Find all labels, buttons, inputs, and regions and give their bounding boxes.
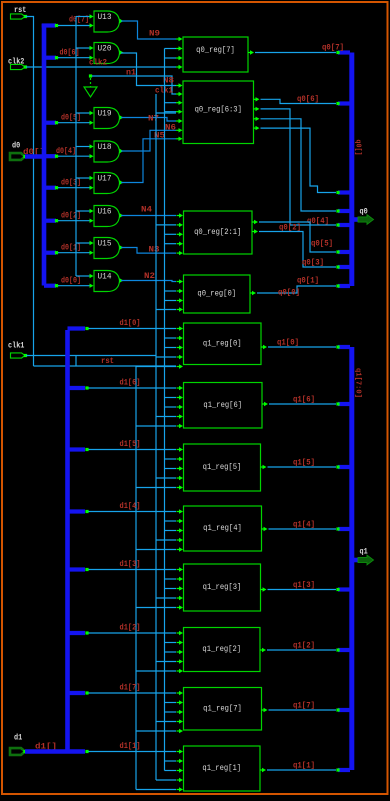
flip-flop block q1_reg[5] xyxy=(177,444,261,491)
wire clk2 net horizontal to q0_reg[7] xyxy=(26,66,176,68)
svg-text:q0[6]: q0[6] xyxy=(297,95,319,104)
svg-text:N6: N6 xyxy=(165,124,176,133)
wire net q1[7] from q1_reg[7] to bus q1 xyxy=(262,702,351,713)
wire net q1[3] from q1_reg[3] to bus q1 xyxy=(261,581,351,592)
wire net N3 from U15 to q0_reg[2:1] xyxy=(121,245,176,254)
svg-text:q0: q0 xyxy=(360,208,368,217)
svg-text:U19: U19 xyxy=(98,111,112,119)
wire clk1 net horizontal xyxy=(26,356,156,367)
svg-text:d0: d0 xyxy=(12,141,20,151)
input bus port d0 xyxy=(10,141,45,160)
wire vertical rail C x136 rst distribution xyxy=(136,366,176,790)
bus stub and net d1[0] to q1_reg[0] xyxy=(68,319,177,330)
svg-text:U16: U16 xyxy=(98,209,112,217)
svg-text:N7: N7 xyxy=(148,115,159,124)
net n1 wire from dangling pin to q0_reg[6:3] xyxy=(92,69,176,95)
wire net N4 from U16 to q0_reg[2:1] xyxy=(121,206,176,216)
svg-text:q1[5]: q1[5] xyxy=(293,459,315,468)
flip-flop block q1_reg[4] xyxy=(177,506,262,552)
svg-text:d1[3]: d1[3] xyxy=(120,560,141,569)
bus stub and net d1[3] to q1_reg[3] xyxy=(68,560,177,571)
svg-text:q0_reg[0]: q0_reg[0] xyxy=(197,289,236,299)
bus stub and net d0[3] to gate U17 xyxy=(44,179,94,190)
svg-text:q1[4]: q1[4] xyxy=(293,521,315,530)
svg-text:q1_reg[5]: q1_reg[5] xyxy=(203,462,242,472)
unconnected net symbol with hanger triangle xyxy=(84,74,97,97)
wire from q0_reg[6:3] pin to stub y211 xyxy=(261,119,337,211)
svg-text:U14: U14 xyxy=(98,274,112,282)
svg-text:d1[7]: d1[7] xyxy=(120,684,141,693)
svg-text:U15: U15 xyxy=(98,241,112,249)
flip-flop block q1_reg[6] xyxy=(177,383,263,429)
svg-text:U20: U20 xyxy=(98,46,112,54)
wire vertical rail A x164 feeding register pins xyxy=(165,49,177,771)
wire net q0[3] from q0_reg[2:1] xyxy=(259,232,336,268)
bus q0 vertical trunk xyxy=(352,53,362,287)
svg-text:d1: d1 xyxy=(14,733,22,743)
wire net N7 from U19 to q0_reg[6:3] xyxy=(121,115,176,124)
bus q0 stub at y=225 xyxy=(336,223,350,226)
bus q0 stub at y=252 xyxy=(336,250,350,253)
bus q0 stub at y=103.5 xyxy=(336,102,350,105)
svg-text:d1[0]: d1[0] xyxy=(120,319,141,328)
bus stub and net d0[6] to gate U20 xyxy=(44,49,94,60)
svg-text:N3: N3 xyxy=(149,245,160,254)
flip-flop block q0_reg[2:1] xyxy=(177,211,259,255)
wire vertical rail B x156 clk1 distribution xyxy=(156,94,176,780)
wire from q0_reg[6:3] pin to stub y225 xyxy=(261,109,337,233)
svg-text:q1_reg[3]: q1_reg[3] xyxy=(203,582,242,592)
bus stub and net d1[1] to q1_reg[1] xyxy=(85,742,176,753)
wire net q1[4] from q1_reg[4] to bus q1 xyxy=(262,521,351,532)
and-gate U16 xyxy=(94,206,124,227)
output port q1 with bus stub xyxy=(353,548,374,565)
and-gate U20 xyxy=(94,43,124,64)
bus stub and net d1[5] to q1_reg[5] xyxy=(68,440,177,451)
svg-text:clk2: clk2 xyxy=(8,57,24,67)
and-gate U18 xyxy=(94,141,124,162)
flip-flop block q1_reg[0] xyxy=(177,323,262,369)
flip-flop block q1_reg[2] xyxy=(177,628,261,674)
and-gate U19 xyxy=(94,108,124,129)
flip-flop block q0_reg[7] xyxy=(176,37,254,72)
svg-text:d1[5]: d1[5] xyxy=(120,440,141,449)
svg-text:d1[6]: d1[6] xyxy=(120,379,141,388)
svg-text:rst: rst xyxy=(101,357,114,366)
bus stub and net d0[1] to gate U15 xyxy=(44,244,94,255)
svg-text:U13: U13 xyxy=(98,14,112,22)
wire net q1[6] from q1_reg[6] to bus q1 xyxy=(262,396,350,407)
input port clk2 xyxy=(8,57,27,70)
svg-text:q1[7:0]: q1[7:0] xyxy=(354,368,362,398)
wire net q1[2] from q1_reg[2] to bus q1 xyxy=(260,642,350,653)
wire net q1[0] from q1_reg[0] to bus q1 xyxy=(261,339,350,350)
svg-text:N2: N2 xyxy=(144,272,155,281)
svg-text:n1: n1 xyxy=(126,69,136,78)
svg-text:N4: N4 xyxy=(141,206,152,215)
flip-flop block q1_reg[1] xyxy=(177,746,261,792)
bus q0 stub at y=52.5 xyxy=(336,51,350,54)
bus d0 vertical trunk xyxy=(42,24,47,286)
wire net N6 from U18 to q0_reg[6:3] xyxy=(121,124,176,152)
svg-text:d1[2]: d1[2] xyxy=(120,624,141,633)
svg-text:q0[7]: q0[7] xyxy=(322,44,344,53)
svg-text:d1[4]: d1[4] xyxy=(120,502,141,511)
bus q0 stub at y=211 xyxy=(336,209,350,212)
svg-text:q1[7]: q1[7] xyxy=(293,702,315,711)
wire net q0[6] xyxy=(261,95,337,104)
svg-text:d0[0]: d0[0] xyxy=(61,277,81,286)
and-gate U15 xyxy=(94,238,124,259)
svg-text:q1_reg[7]: q1_reg[7] xyxy=(203,703,242,713)
svg-text:q0[3]: q0[3] xyxy=(302,259,324,268)
bus d1 horizontal from port xyxy=(25,749,85,754)
bus stub and net d0[0] to gate U14 xyxy=(44,277,94,288)
svg-text:q1[0]: q1[0] xyxy=(277,339,299,348)
wire net N5 from U17 to q0_reg[6:3] xyxy=(121,132,176,183)
bus stub and net d0[5] to gate U19 xyxy=(44,114,94,125)
bus q1 vertical trunk xyxy=(352,347,362,770)
bus stub and net d1[2] to q1_reg[2] xyxy=(68,624,177,635)
svg-text:clk1: clk1 xyxy=(8,341,24,351)
svg-text:d0[5]: d0[5] xyxy=(61,114,81,123)
wire net N2 from U14 to q0_reg[0] xyxy=(121,272,176,282)
wire net q1[1] from q1_reg[1] to bus q1 xyxy=(260,762,350,773)
bus q0 stub at y=286 xyxy=(336,284,350,287)
svg-text:q1[1]: q1[1] xyxy=(293,762,315,771)
svg-text:q1_reg[2]: q1_reg[2] xyxy=(202,644,241,654)
bus stub and net d0[7] to gate U13 xyxy=(42,16,94,28)
svg-text:d0[1]: d0[1] xyxy=(61,244,81,253)
wire from q0_reg[6:3] pin to stub y192.5 xyxy=(261,128,337,192)
wire net q0[7] from q0_reg[7] xyxy=(255,44,344,53)
wire clk2 rail to gate upper inputs xyxy=(76,14,94,278)
svg-text:rst: rst xyxy=(14,6,26,15)
wire net N9 from U13 to q0_reg[7] xyxy=(121,21,176,39)
svg-text:q0_reg[7]: q0_reg[7] xyxy=(196,45,235,55)
svg-text:q1[6]: q1[6] xyxy=(293,396,315,405)
svg-text:d1[1]: d1[1] xyxy=(120,742,141,751)
bus stub and net d1[6] to q1_reg[6] xyxy=(68,379,177,390)
and-gate U13 xyxy=(94,11,124,32)
wire net N8 from U20 to q0_reg[6:3] xyxy=(121,53,176,86)
svg-text:q0_reg[2:1]: q0_reg[2:1] xyxy=(194,227,241,237)
output port q0 with bus stub xyxy=(353,208,374,225)
wire net q0[1] q0[0] from q0_reg[0] xyxy=(257,277,336,298)
svg-text:d0[2]: d0[2] xyxy=(61,212,81,221)
svg-text:N9: N9 xyxy=(149,30,160,39)
and-gate U17 xyxy=(94,173,124,194)
svg-text:q1_reg[4]: q1_reg[4] xyxy=(203,523,242,533)
bus d1 vertical trunk xyxy=(65,330,70,752)
svg-text:q1_reg[6]: q1_reg[6] xyxy=(203,400,242,410)
bus q0 stub at y=267 xyxy=(336,265,350,268)
wire rst net from port down left side xyxy=(26,17,34,367)
bus stub and net d1[7] to q1_reg[7] xyxy=(68,684,177,695)
and-gate U14 xyxy=(94,271,124,292)
input port rst xyxy=(11,6,28,19)
svg-text:q0[5]: q0[5] xyxy=(311,240,333,249)
wire net q0[5] from q0_reg[2:1] xyxy=(259,222,336,252)
flip-flop block q1_reg[7] xyxy=(177,688,262,734)
svg-text:q0[]: q0[] xyxy=(354,140,362,156)
svg-text:q1_reg[1]: q1_reg[1] xyxy=(202,763,241,773)
svg-text:q0[0]: q0[0] xyxy=(278,289,300,298)
svg-text:U17: U17 xyxy=(98,176,112,184)
svg-text:U18: U18 xyxy=(98,144,112,152)
flip-flop block q1_reg[3] xyxy=(177,564,261,611)
svg-text:q1[3]: q1[3] xyxy=(293,581,315,590)
svg-text:q1_reg[0]: q1_reg[0] xyxy=(203,338,242,348)
net label clk2 under U20 xyxy=(89,59,107,68)
svg-text:q1: q1 xyxy=(360,548,368,557)
svg-text:d0[4]: d0[4] xyxy=(56,147,76,156)
flip-flop block q0_reg[6:3] xyxy=(176,81,260,144)
svg-text:clk2: clk2 xyxy=(89,59,107,68)
wire net q1[5] from q1_reg[5] to bus q1 xyxy=(261,459,351,470)
svg-text:q0[1]: q0[1] xyxy=(297,277,319,286)
wire rst net horizontal with label xyxy=(34,357,177,366)
bus q0 stub at y=192.5 xyxy=(336,191,350,194)
svg-text:q0_reg[6:3]: q0_reg[6:3] xyxy=(195,105,242,115)
input port clk1 xyxy=(8,341,27,359)
flip-flop block q0_reg[0] xyxy=(177,275,257,313)
bus d0 horizontal from port d0 xyxy=(25,154,46,159)
net label clk1 upper and wire to q0_reg[6:3] pin2 xyxy=(155,87,173,96)
input bus port d1 xyxy=(10,733,57,755)
bus stub and net d1[4] to q1_reg[4] xyxy=(68,502,177,513)
svg-text:q1[2]: q1[2] xyxy=(293,642,315,651)
bus stub and net d0[4] to gate U18 xyxy=(44,147,94,158)
bus stub and net d0[2] to gate U16 xyxy=(44,212,94,223)
svg-text:d0[3]: d0[3] xyxy=(61,179,81,188)
